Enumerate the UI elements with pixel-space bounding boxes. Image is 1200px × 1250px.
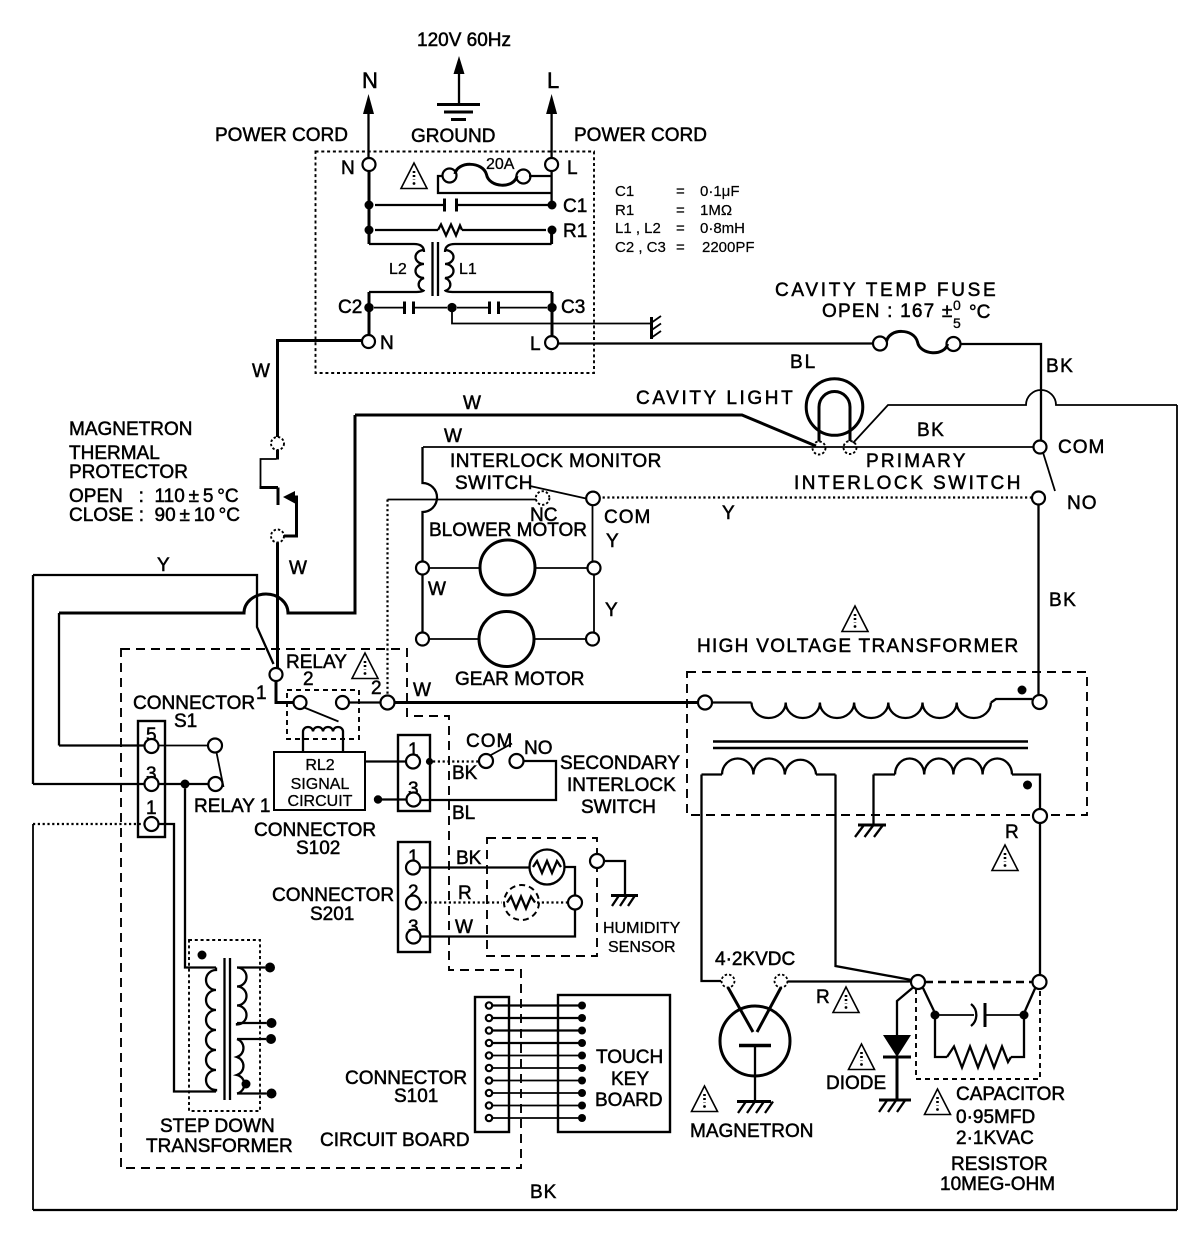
svg-text:KEY: KEY — [611, 1069, 649, 1090]
thermal protector switch — [260, 437, 308, 579]
svg-text:CIRCUIT BOARD: CIRCUIT BOARD — [320, 1130, 470, 1151]
svg-text:CAPACITOR: CAPACITOR — [956, 1084, 1065, 1105]
svg-text:BL: BL — [790, 352, 817, 373]
svg-text:S101: S101 — [394, 1086, 438, 1107]
svg-text:GROUND: GROUND — [411, 126, 495, 147]
high voltage transformer label — [697, 636, 1020, 657]
thermistor RT1 — [530, 850, 576, 897]
connector S102 — [398, 735, 433, 811]
svg-text:N: N — [341, 158, 355, 179]
svg-text:N: N — [380, 333, 394, 354]
connector S102 label — [254, 820, 376, 859]
node N power cord terminal arrow — [215, 68, 378, 158]
svg-text:GEAR MOTOR: GEAR MOTOR — [455, 669, 585, 690]
primary interlock switch — [794, 437, 1105, 514]
gear motor — [416, 575, 618, 691]
capacitor and resistor labels — [940, 1084, 1065, 1195]
touch key board — [558, 995, 670, 1132]
svg-text:1MΩ: 1MΩ — [700, 202, 732, 219]
warning triangle in filter box — [401, 163, 427, 189]
wire NO to monitor COM (dotted) — [599, 498, 1032, 525]
wire R label near magnetron — [816, 987, 830, 1008]
relay 1 — [159, 739, 271, 818]
high voltage transformer dashed enclosure — [687, 672, 1087, 815]
connector S101 — [475, 997, 509, 1132]
svg-text:Y: Y — [606, 531, 619, 552]
warning triangle diode — [849, 1044, 875, 1070]
node N output terminal — [362, 333, 394, 354]
relay 2 coil — [303, 727, 343, 753]
magnetron filament terminals — [715, 949, 911, 988]
svg-text:L: L — [547, 68, 559, 93]
svg-text:BK: BK — [1049, 590, 1077, 611]
node L terminal of filter — [545, 158, 577, 179]
svg-text:INTERLOCK: INTERLOCK — [567, 775, 676, 796]
svg-text:L2: L2 — [389, 261, 407, 278]
svg-text:PRIMARY: PRIMARY — [866, 451, 968, 472]
secondary interlock switch — [466, 731, 680, 818]
svg-text:Y: Y — [605, 600, 618, 621]
wire dashed junction to R node — [925, 981, 1032, 983]
capacitor dashed enclosure — [916, 989, 1040, 1079]
connector S1 label — [133, 693, 255, 732]
chassis ground (filter) — [651, 316, 661, 339]
svg-text:=: = — [676, 239, 685, 256]
svg-text:120V 60Hz: 120V 60Hz — [417, 30, 511, 51]
svg-text:POWER CORD: POWER CORD — [215, 125, 348, 146]
step down transformer primary winding — [206, 968, 216, 1092]
svg-text:L1 , L2: L1 , L2 — [615, 220, 661, 237]
svg-text:W: W — [444, 426, 462, 447]
svg-text:MAGNETRON: MAGNETRON — [69, 419, 193, 440]
svg-text:RESISTOR: RESISTOR — [951, 1154, 1048, 1175]
svg-text:S201: S201 — [310, 904, 354, 925]
big dashed enclosure circuit board assembly — [121, 649, 521, 1168]
svg-text:RELAY 1: RELAY 1 — [194, 796, 270, 817]
svg-text:S102: S102 — [296, 838, 340, 859]
wire left rail to S1 pin5 — [59, 744, 145, 746]
svg-text:SWITCH: SWITCH — [455, 473, 533, 494]
wire junction to capacitor left — [923, 988, 934, 1011]
svg-text:0·95MFD: 0·95MFD — [956, 1107, 1035, 1128]
node L power cord terminal arrow — [546, 68, 707, 158]
diode D1 — [879, 988, 913, 1113]
wire R HVT down to capacitor node — [1039, 823, 1041, 975]
svg-text:INTERLOCK SWITCH: INTERLOCK SWITCH — [794, 473, 1023, 494]
svg-text:HIGH VOLTAGE TRANSFORMER: HIGH VOLTAGE TRANSFORMER — [697, 636, 1020, 657]
thermistor RT2 (dashed) — [504, 885, 568, 920]
connector S201 — [398, 842, 430, 952]
svg-text:NO: NO — [524, 738, 553, 759]
node N terminal of filter — [341, 158, 376, 179]
magnetron label — [690, 1121, 814, 1142]
svg-text:2: 2 — [303, 669, 314, 690]
ground symbol (mains earth) — [411, 56, 495, 147]
diode label — [826, 1073, 886, 1094]
svg-text:POWER CORD: POWER CORD — [574, 125, 707, 146]
warning triangle HVT — [842, 606, 868, 632]
ribbon wires S101 to touch key board — [492, 1002, 586, 1123]
HVT filament winding — [702, 758, 836, 774]
svg-text:20A: 20A — [486, 156, 515, 173]
svg-text:BK: BK — [1046, 356, 1074, 377]
wire NC to relay 2 node (dotted) — [388, 500, 537, 696]
svg-text:=: = — [676, 202, 685, 219]
svg-text:COM: COM — [1058, 437, 1105, 458]
svg-text:°C: °C — [969, 302, 990, 323]
wire W from N terminal down — [252, 341, 362, 438]
wire N vertical through filter — [368, 171, 371, 244]
wire filament left lead to magnetron — [702, 775, 722, 982]
svg-text:CONNECTOR: CONNECTOR — [272, 885, 394, 906]
RL2 signal circuit box — [274, 752, 365, 810]
cavity light — [636, 379, 863, 455]
svg-text:2: 2 — [371, 678, 382, 699]
wire filament right lead to diode node — [836, 775, 912, 981]
HVT primary winding — [752, 699, 1033, 718]
wire W left vertical to motors with jump — [423, 447, 438, 562]
wire S1 pin3 to step-down primary top — [185, 789, 216, 968]
node humidity junction — [421, 896, 583, 939]
relay 2 — [256, 652, 381, 739]
wire Y monitor COM down right side — [593, 505, 595, 633]
inductor L2 — [369, 244, 424, 292]
wire BK S201 pin1 to thermistor — [420, 848, 530, 869]
svg-text:W: W — [455, 917, 473, 938]
svg-text:BL: BL — [452, 803, 475, 824]
node 120V 60Hz supply label — [417, 30, 511, 51]
step down transformer label — [146, 1116, 293, 1157]
svg-text:W: W — [252, 361, 270, 382]
svg-text:SECONDARY: SECONDARY — [560, 753, 680, 774]
node BK at HVT primary — [1033, 695, 1047, 709]
svg-text:R: R — [816, 987, 830, 1008]
svg-text:CAVITY TEMP FUSE: CAVITY TEMP FUSE — [775, 280, 998, 301]
svg-text:L: L — [567, 158, 578, 179]
wire fuse to C1/R1 network — [438, 171, 552, 205]
magnetron thermal protector label — [69, 419, 240, 526]
cavity temp fuse — [775, 280, 998, 353]
svg-text:N: N — [362, 68, 378, 93]
svg-text:BLOWER MOTOR: BLOWER MOTOR — [429, 520, 587, 541]
inductor L1 — [369, 230, 552, 336]
step down transformer secondary winding A — [237, 963, 277, 1029]
node BL stub dot — [374, 795, 407, 803]
noise filter dashed enclosure — [316, 152, 595, 374]
svg-text:Y: Y — [722, 503, 735, 524]
wire BK bottom rail — [33, 1182, 1177, 1210]
svg-text:RELAY: RELAY — [286, 652, 347, 673]
component value table — [615, 183, 755, 256]
svg-text:BK: BK — [456, 848, 482, 869]
svg-text:CIRCUIT: CIRCUIT — [288, 793, 353, 810]
svg-text:C2 , C3: C2 , C3 — [615, 239, 666, 256]
wire BL left to S1 pin1 (dotted) — [33, 823, 145, 825]
HVT HV winding ground — [855, 775, 886, 838]
connector S201 label — [272, 885, 394, 925]
warning triangle capacitor — [925, 1089, 951, 1115]
humidity sensor case terminal to ground — [590, 854, 681, 956]
svg-text:NO: NO — [1067, 493, 1098, 514]
resistor R1 — [365, 221, 588, 242]
svg-text:0·8mH: 0·8mH — [700, 220, 745, 237]
node R capacitor junction — [1033, 975, 1047, 989]
svg-text:COM: COM — [466, 731, 513, 752]
svg-text:S1: S1 — [174, 711, 197, 732]
svg-text:Y: Y — [157, 555, 170, 576]
svg-text:2200PF: 2200PF — [702, 239, 755, 256]
wire RL2 to S102 pin1 — [365, 760, 406, 762]
svg-text:TRANSFORMER: TRANSFORMER — [146, 1136, 293, 1157]
svg-text:C1: C1 — [563, 196, 587, 217]
svg-text:2·1KVAC: 2·1KVAC — [956, 1128, 1034, 1149]
warning triangle relay 2 — [352, 653, 382, 699]
circuit board label — [320, 1130, 470, 1151]
svg-text:R1: R1 — [563, 221, 587, 242]
svg-text:W: W — [463, 393, 481, 414]
wire BK S102 pin1 to secondary COM (dotted) — [433, 762, 479, 785]
wire Y from left rail to relay 2 — [33, 555, 274, 784]
svg-text:W: W — [289, 558, 307, 579]
wire right rail — [1176, 405, 1178, 1210]
capacitor C2 — [338, 297, 447, 318]
wire BK NO down to HVT primary — [1039, 505, 1078, 696]
svg-text:R: R — [1005, 822, 1019, 843]
svg-text:4·2KVDC: 4·2KVDC — [715, 949, 795, 970]
svg-text:C3: C3 — [561, 297, 585, 318]
svg-text:5: 5 — [953, 315, 961, 331]
wire BK lamp to right rail with jump — [853, 390, 1177, 443]
svg-text:MAGNETRON: MAGNETRON — [690, 1121, 814, 1142]
svg-text:RL2: RL2 — [305, 757, 334, 774]
warning triangle R rail — [992, 845, 1018, 871]
connector S101 label — [345, 1068, 467, 1107]
svg-text:W: W — [428, 579, 446, 600]
svg-text:THERMAL: THERMAL — [69, 443, 160, 464]
svg-text:=: = — [676, 183, 685, 200]
wire W pin5 run with jump — [59, 415, 355, 746]
warning triangle R wire — [833, 987, 859, 1013]
svg-text:STEP DOWN: STEP DOWN — [160, 1116, 275, 1137]
wire W upper run to cavity light — [355, 393, 816, 446]
svg-text:SIGNAL: SIGNAL — [291, 776, 350, 793]
svg-text:PROTECTOR: PROTECTOR — [69, 462, 188, 483]
svg-text:R1: R1 — [615, 202, 634, 219]
wire BL left rail — [32, 824, 34, 1210]
step down transformer core — [225, 958, 231, 1100]
resistor R (10 meg) — [935, 1019, 1024, 1068]
wire BK fuse to primary interlock COM — [960, 344, 1074, 441]
svg-text:W: W — [413, 680, 431, 701]
node R terminal HVT — [1005, 809, 1047, 843]
node C2/C3 mid junction to chassis ground — [447, 303, 650, 324]
magnetron — [720, 988, 790, 1114]
svg-text:C1: C1 — [615, 183, 634, 200]
wire R node to capacitor right — [1025, 989, 1035, 1012]
step down transformer dashed enclosure — [189, 940, 260, 1111]
HVT primary terminal — [698, 696, 752, 710]
svg-text:=: = — [676, 220, 685, 237]
svg-text:OPEN : 167 ±: OPEN : 167 ± — [822, 301, 954, 322]
node L output terminal — [530, 334, 558, 355]
svg-text:C2: C2 — [338, 297, 362, 318]
svg-text:SWITCH: SWITCH — [581, 797, 656, 818]
svg-text:HUMIDITY: HUMIDITY — [603, 920, 681, 937]
wire lamp row to COM — [423, 426, 1034, 447]
connector S1 — [138, 721, 165, 837]
svg-text:CLOSE : 90 ± 10 °C: CLOSE : 90 ± 10 °C — [69, 505, 240, 526]
wire L to cavity temp fuse — [558, 342, 874, 344]
svg-text:R: R — [458, 883, 472, 904]
svg-text:0: 0 — [953, 297, 961, 313]
warning triangle magnetron — [692, 1086, 718, 1112]
svg-text:L1: L1 — [459, 261, 477, 278]
svg-text:0·1μF: 0·1μF — [700, 183, 740, 200]
svg-text:1: 1 — [256, 683, 267, 704]
wire R S201 pin2 (dotted) — [420, 883, 502, 904]
svg-text:OPEN : 110 ± 5 °C: OPEN : 110 ± 5 °C — [69, 486, 239, 507]
svg-text:BK: BK — [917, 420, 945, 441]
node diode/cap junction — [911, 975, 925, 989]
capacitor C1 — [365, 196, 588, 217]
HVT HV winding — [874, 758, 1041, 809]
svg-text:BK: BK — [530, 1182, 557, 1203]
svg-text:L: L — [530, 334, 541, 355]
wire BL NO loop to S102 pin3 — [421, 761, 557, 824]
svg-text:BOARD: BOARD — [595, 1090, 663, 1111]
wire left rail to S1 pin3 — [33, 783, 145, 785]
node W relay junction — [381, 680, 699, 710]
HVT primary polarity dot — [1018, 686, 1027, 695]
wire S1 pin1 to step-down primary bottom — [159, 824, 217, 1092]
svg-text:CAVITY LIGHT: CAVITY LIGHT — [636, 388, 795, 409]
step down transformer secondary winding B — [237, 1034, 277, 1099]
svg-text:10MEG-OHM: 10MEG-OHM — [940, 1174, 1055, 1195]
step down transformer polarity dot primary — [198, 951, 207, 960]
svg-text:DIODE: DIODE — [826, 1073, 886, 1094]
fuse F1 20A — [443, 156, 531, 185]
blower motor — [416, 520, 619, 600]
HVT core — [713, 742, 1028, 749]
interlock monitor switch — [450, 451, 662, 528]
transformer core of filter — [433, 242, 439, 296]
svg-text:1: 1 — [146, 798, 157, 819]
capacitor C (0.95MFD) — [931, 1003, 1029, 1027]
humidity sensor dashed enclosure — [487, 838, 597, 956]
wire W protector to relay 2 — [276, 543, 279, 669]
svg-text:INTERLOCK MONITOR: INTERLOCK MONITOR — [450, 451, 662, 472]
svg-text:SENSOR: SENSOR — [608, 939, 676, 956]
svg-text:COM: COM — [604, 507, 651, 528]
svg-text:TOUCH: TOUCH — [596, 1047, 663, 1068]
svg-text:BK: BK — [452, 763, 478, 784]
capacitor C3 — [457, 297, 585, 318]
wire BL label — [790, 352, 817, 373]
